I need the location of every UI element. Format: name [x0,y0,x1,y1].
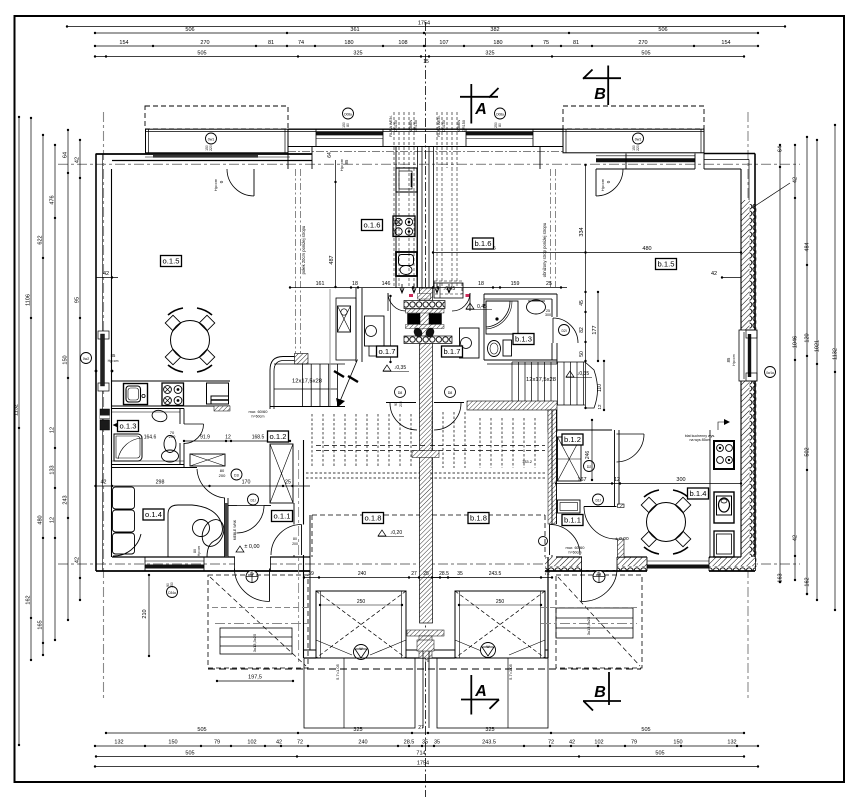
right unit tick 42 wall [722,277,741,279]
room label b.1.2 [562,434,583,445]
svg-text:64: 64 [327,152,333,158]
left wall window o.1.3 dark [100,409,110,419]
b.1.2 wardrobe [558,437,582,481]
gate symbol left [354,645,369,660]
svg-text:D08a: D08a [344,113,352,117]
svg-text:75: 75 [424,658,430,663]
svg-text:72: 72 [548,740,554,746]
stair enclosure curved wall [270,357,302,410]
garage o.1.8 dashed outline [312,514,420,516]
o.1.7 wall [355,288,357,362]
svg-text:210: 210 [142,609,148,618]
b.1.1 inner door arc [617,434,645,462]
svg-text:85: 85 [111,353,116,358]
svg-text:o.1.5: o.1.5 [163,257,180,266]
svg-text:102: 102 [594,740,603,746]
stair treads left unit [274,363,345,365]
svg-text:↓0,35: ↓0,35 [577,371,589,377]
garage walls right [547,557,549,658]
svg-text:167: 167 [577,477,586,483]
interior dim line o.1.5 tick 42 [96,277,118,279]
svg-text:91.9: 91.9 [200,435,210,441]
party wall black block left [408,314,421,325]
svg-text:484: 484 [805,242,811,251]
window o.1.4 bottom [145,560,204,562]
terrace left roof dashed [145,106,288,129]
garage walls left [303,440,305,525]
svg-text:b.1.7: b.1.7 [444,347,461,356]
kitchen counter o.1.5 [112,380,230,382]
window b.1.4 bottom [647,556,709,572]
axis bottom wall [58,563,800,565]
svg-text:250: 250 [496,599,505,605]
top wall right segment [704,153,755,155]
svg-text:o.1.6: o.1.6 [364,221,381,230]
porch left dim 197.5 [217,680,293,682]
svg-text:154: 154 [721,40,730,46]
svg-text:150: 150 [63,355,69,364]
svg-text:325: 325 [353,51,362,57]
svg-text:35: 35 [422,740,428,746]
wall o.1.1 top + door [228,505,237,507]
dimension row bottom 505/714/505 [96,756,744,758]
door stairhall to garage right [434,402,464,404]
svg-text:164.6: 164.6 [144,435,157,441]
svg-text:15: 15 [423,59,429,65]
svg-text:1754: 1754 [417,761,429,767]
porch circle Dz [246,571,258,583]
porch left steps [220,628,292,654]
window circle marker 0w1 left terrace [206,133,217,144]
svg-text:b.1.1: b.1.1 [564,516,581,525]
window marker circle D08a right [495,108,506,119]
svg-text:KOMIN: KOMIN [409,120,413,133]
left vertical dimension lines [18,117,20,745]
roofline big dashed [208,668,641,670]
right exterior wall hatched [741,200,750,571]
svg-text:197,5: 197,5 [248,675,262,681]
svg-text:162: 162 [805,577,811,586]
svg-text:MEBLE WNK: MEBLE WNK [233,519,237,540]
porch right dashed outline [556,575,642,668]
svg-text:177: 177 [592,325,598,334]
svg-text:1106: 1106 [26,294,32,306]
room label o.1.3 [118,421,139,432]
svg-text:o.1.3: o.1.3 [120,422,137,431]
svg-text:± 0,00: ± 0,00 [615,536,629,542]
top wall left segment [96,153,312,155]
red vent marks [466,294,470,297]
svg-text:243.5: 243.5 [482,740,496,746]
misc small marks near left window [95,370,98,373]
svg-text:Hp=cm: Hp=cm [108,359,119,363]
svg-text:220: 220 [636,145,640,151]
svg-text:42: 42 [75,557,81,563]
svg-text:o.1.8: o.1.8 [365,514,382,523]
svg-text:D2: D2 [587,465,592,469]
stair arrow [338,360,358,407]
svg-text:42: 42 [793,177,799,183]
svg-text:300: 300 [545,313,551,317]
o.1.3 door [184,424,204,444]
svg-text:Hp=cm: Hp=cm [732,354,736,365]
svg-text:D1l: D1l [250,499,255,503]
svg-text:Hp=cm: Hp=cm [214,179,218,191]
o.1.7 niche wall [336,298,356,360]
flag 0.45 right [466,303,474,309]
svg-text:80: 80 [498,123,502,127]
room label b.1.4 [688,488,709,499]
svg-text:80: 80 [293,537,297,541]
room label b.1.1 [562,515,583,526]
section mark A top [470,84,472,124]
cabinet b.1.4 [714,531,734,557]
svg-text:159: 159 [511,281,520,287]
svg-text:o.1.4: o.1.4 [145,510,162,519]
svg-text:D8: D8 [448,391,453,395]
door stairhall to garage left [386,402,416,404]
terrace left band [146,129,289,153]
top wall kitchen band [288,128,563,130]
svg-text:325: 325 [485,51,494,57]
stair hatched stub [295,354,309,365]
chimney shafts right [436,112,438,168]
right stair hatched wall below [467,401,557,410]
o.1.3 bathroom walls [112,408,184,410]
level flag -0.45 [434,281,462,294]
kitchen column o.1.6 [395,147,397,289]
svg-text:1046: 1046 [793,336,799,348]
svg-text:18: 18 [352,281,358,287]
svg-text:1132: 1132 [14,404,20,416]
wall o.1.2/o.1.4 [112,467,197,469]
svg-text:27: 27 [411,571,417,577]
svg-text:80: 80 [346,123,350,127]
room label b.1.3 [513,334,534,345]
svg-text:25: 25 [285,480,291,486]
entry door swing outside right [582,569,618,602]
stair dashed treads lower [311,414,313,468]
svg-text:90: 90 [394,402,398,406]
svg-text:714: 714 [416,751,425,757]
svg-text:h=60cm: h=60cm [252,415,265,419]
room label b.1.5 [656,259,677,270]
o.1.3 toilet [164,436,176,453]
garage door tracks [316,640,352,655]
svg-text:476: 476 [50,195,56,204]
gate symbol right [481,643,496,658]
svg-text:150: 150 [673,740,682,746]
svg-text:42: 42 [75,157,81,163]
dining table o.1.5 [171,321,210,360]
kitchen column b.1.4 [709,430,711,557]
svg-text:72: 72 [544,571,550,577]
svg-text:506: 506 [185,27,194,33]
shower b.1.3 [486,301,518,334]
party wall lintel band [412,451,439,458]
fridge [396,168,417,192]
chimney shafts left [393,112,395,168]
svg-text:243.5: 243.5 [489,571,502,577]
driveway right [437,658,548,728]
left wall window o.1.5 [98,331,109,339]
small dim chain o.1.7 [390,296,392,362]
svg-text:502: 502 [805,447,811,456]
svg-text:108: 108 [398,40,407,46]
room label b.1.8 [468,513,489,524]
svg-text:Hp=cm: Hp=cm [601,179,605,191]
svg-text:12: 12 [614,477,620,483]
room label o.1.4 [143,509,164,520]
svg-text:95: 95 [75,297,81,303]
svg-text:165: 165 [38,620,44,629]
svg-text:42: 42 [101,480,107,486]
svg-text:↓0,35: ↓0,35 [394,365,406,371]
party wall upper double line [417,146,419,288]
hatched wall stub right of counter [214,406,230,411]
sink o.1.6 [396,252,417,276]
party wall footing [407,630,444,636]
dark knobs [412,326,424,339]
svg-text:RURA WEN.: RURA WEN. [437,115,441,137]
party wall hatched strip [420,288,433,623]
svg-text:64: 64 [778,146,784,152]
svg-text:D8: D8 [398,391,403,395]
svg-text:5.7=1.05: 5.7=1.05 [508,663,513,679]
svg-text:3x13,3x25: 3x13,3x25 [252,633,257,652]
wall top of b.1.1/b.1.2 [557,429,613,431]
svg-text:b.1.3: b.1.3 [515,335,532,344]
window marker circle D08a left [343,108,354,119]
svg-text:200: 200 [219,473,226,478]
svg-text:DN150: DN150 [394,120,398,132]
svg-text:1754: 1754 [418,21,430,27]
svg-text:3x13,3x25: 3x13,3x25 [586,616,591,635]
right unit room dim line 480 [433,252,741,254]
svg-text:18: 18 [478,281,484,287]
svg-text:250: 250 [357,599,366,605]
svg-text:300: 300 [676,477,685,483]
room label o.1.8 [363,513,384,524]
svg-text:0w1a: 0w1a [766,371,774,375]
svg-text:5.7=1.05: 5.7=1.05 [335,663,340,679]
right wall window box [739,330,757,381]
wall o.1.4/o.1.1 [224,498,226,557]
svg-text:D34a: D34a [168,591,176,595]
dashed lower treads area left [431,412,433,468]
svg-text:KOMIN: KOMIN [457,120,461,133]
dimension row bottom small segments [95,745,758,747]
svg-text:200: 200 [292,542,298,546]
window circle marker 0w1 right terrace [633,133,644,144]
svg-text:79: 79 [631,740,637,746]
terrace right window sill [596,155,695,157]
vert dim 487 o.1.6 [335,160,337,287]
svg-text:35: 35 [434,740,440,746]
svg-text:1021: 1021 [815,340,821,352]
svg-text:180: 180 [344,40,353,46]
stair treads right unit [511,362,513,405]
right vertical dimension lines [834,125,836,610]
dimension row top total 1754 [67,26,785,28]
garage 250 dim [320,604,402,606]
svg-text:150: 150 [170,582,174,588]
svg-text:243: 243 [63,495,69,504]
svg-text:168.5: 168.5 [252,435,265,441]
svg-text:↓0,20: ↓0,20 [390,530,402,536]
svg-text:64: 64 [63,152,69,158]
b.1.1 circle [593,494,604,505]
svg-text:↓0,45: ↓0,45 [443,286,455,292]
svg-text:B: B [594,684,606,701]
svg-text:107: 107 [439,40,448,46]
dimension row bottom total 1754 [95,766,758,768]
vent arrow left wall [113,421,131,429]
svg-text:505: 505 [197,727,206,733]
svg-text:42: 42 [276,740,282,746]
svg-text:270: 270 [638,40,647,46]
svg-text:480: 480 [38,515,44,524]
insulation circle band lower [404,336,452,344]
svg-text:85: 85 [344,159,349,164]
svg-text:h=60cm: h=60cm [569,551,582,555]
svg-text:506: 506 [658,27,667,33]
svg-text:o.1.2: o.1.2 [270,432,287,441]
svg-text:74: 74 [298,40,304,46]
svg-text:28.5: 28.5 [439,571,449,577]
svg-text:12: 12 [225,435,231,441]
svg-text:505: 505 [641,727,650,733]
porch circle Dz right [593,571,605,583]
svg-text:170: 170 [242,480,251,486]
svg-text:25: 25 [546,281,552,287]
section mark A bottom [470,675,472,715]
svg-text:334: 334 [579,227,585,236]
svg-text:81: 81 [573,40,579,46]
furniture strip o.1.1 [225,503,228,557]
svg-text:200: 200 [399,401,403,407]
svg-text:A: A [474,101,487,118]
svg-text:obniżony strop poniżej stropu: obniżony strop poniżej stropu [542,222,547,277]
svg-text:na wys 85cm: na wys 85cm [690,438,711,442]
axis party-wall centerline [425,22,427,797]
svg-text:połek 20cm poniżej stropu: połek 20cm poniżej stropu [301,225,306,274]
svg-text:622: 622 [38,235,44,244]
svg-text:270: 270 [200,40,209,46]
svg-text:246: 246 [585,451,591,460]
svg-text:mur. 60/60: mur. 60/60 [566,545,586,550]
dim row o.1.4 [95,485,310,487]
axis left wall [103,112,105,700]
svg-text:487: 487 [329,255,335,264]
toilet b.1.3 [488,341,501,357]
svg-text:D08a: D08a [496,113,504,117]
canopy dashes left [212,607,310,609]
svg-text:o.1.7: o.1.7 [379,347,396,356]
canopy dashes right [541,607,640,609]
dimension row top small segments [95,45,758,47]
svg-text:b.1.2: b.1.2 [564,435,581,444]
svg-text:480: 480 [642,246,651,252]
shaft arrows [400,284,404,293]
svg-text:o.1.1: o.1.1 [274,512,291,521]
garage dim row [304,577,460,579]
insulation circle band upper [404,301,445,309]
svg-text:1132: 1132 [833,348,839,360]
svg-text:180: 180 [493,40,502,46]
window b.1.6 top [466,138,533,140]
svg-text:79: 79 [214,740,220,746]
entry door opening left unit [235,556,270,570]
hatch band below blocks [406,325,445,329]
o.1.3 washbasin [151,409,168,423]
svg-text:± 0,00: ± 0,00 [244,544,259,550]
svg-text:42: 42 [103,271,109,277]
svg-text:505: 505 [655,751,664,757]
svg-text:b.1.5: b.1.5 [658,260,675,269]
svg-text:28.5: 28.5 [404,740,415,746]
section mark B top [607,66,609,106]
window o.1.6 top [316,138,383,140]
svg-text:81: 81 [268,40,274,46]
sink unit [124,384,148,405]
dimension row top 505/325 [95,56,744,58]
bottom wall right unit hatched [545,557,755,567]
room label o.1.7 [377,346,398,357]
svg-text:183.2: 183.2 [522,459,533,464]
party wall below garage [417,640,434,651]
room label o.1.1 [272,511,293,522]
svg-text:0w1: 0w1 [635,138,642,142]
svg-text:50: 50 [579,351,585,357]
svg-text:82: 82 [579,327,585,333]
wardrobe horizontal o.1.2 [190,454,225,466]
door b.1.3 arc [553,318,578,343]
svg-text:12x17,5x28: 12x17,5x28 [526,377,556,383]
right wall window circle 0w1a [765,367,776,378]
right unit vert dim 334 [585,165,587,408]
svg-text:146: 146 [382,281,391,287]
svg-text:A: A [474,683,487,700]
window label under o.1.4 window [167,587,178,598]
stair bottom wall left [270,406,345,408]
hall o.1.2 dim line [184,440,290,442]
svg-text:12: 12 [597,404,602,410]
svg-text:133: 133 [50,465,56,474]
svg-text:42: 42 [711,271,717,277]
svg-text:D2l: D2l [561,329,566,333]
room label o.1.5 [161,256,182,267]
terrace right roof dashed [563,106,704,129]
svg-text:120: 120 [805,333,811,342]
terrace left door leaf+arc [253,169,255,196]
garage o.1.8 front wall [304,649,316,651]
room label o.1.6 [362,220,383,231]
b.1.7 fixtures right of party [434,283,463,298]
svg-text:35: 35 [457,571,463,577]
corridor door right unit [550,525,581,556]
dining table b.1.4 [647,503,686,542]
cabinet [207,383,229,404]
door b.1.1 to b.1.4 [584,506,617,508]
stove o.1.6 [393,216,415,237]
svg-text:b.1.8: b.1.8 [470,514,487,523]
porch left dashed outline [208,575,308,668]
svg-text:42: 42 [569,740,575,746]
svg-text:505: 505 [641,51,650,57]
party hatch stub below corridor [418,294,431,300]
garage b.1.8 front wall [432,649,455,651]
